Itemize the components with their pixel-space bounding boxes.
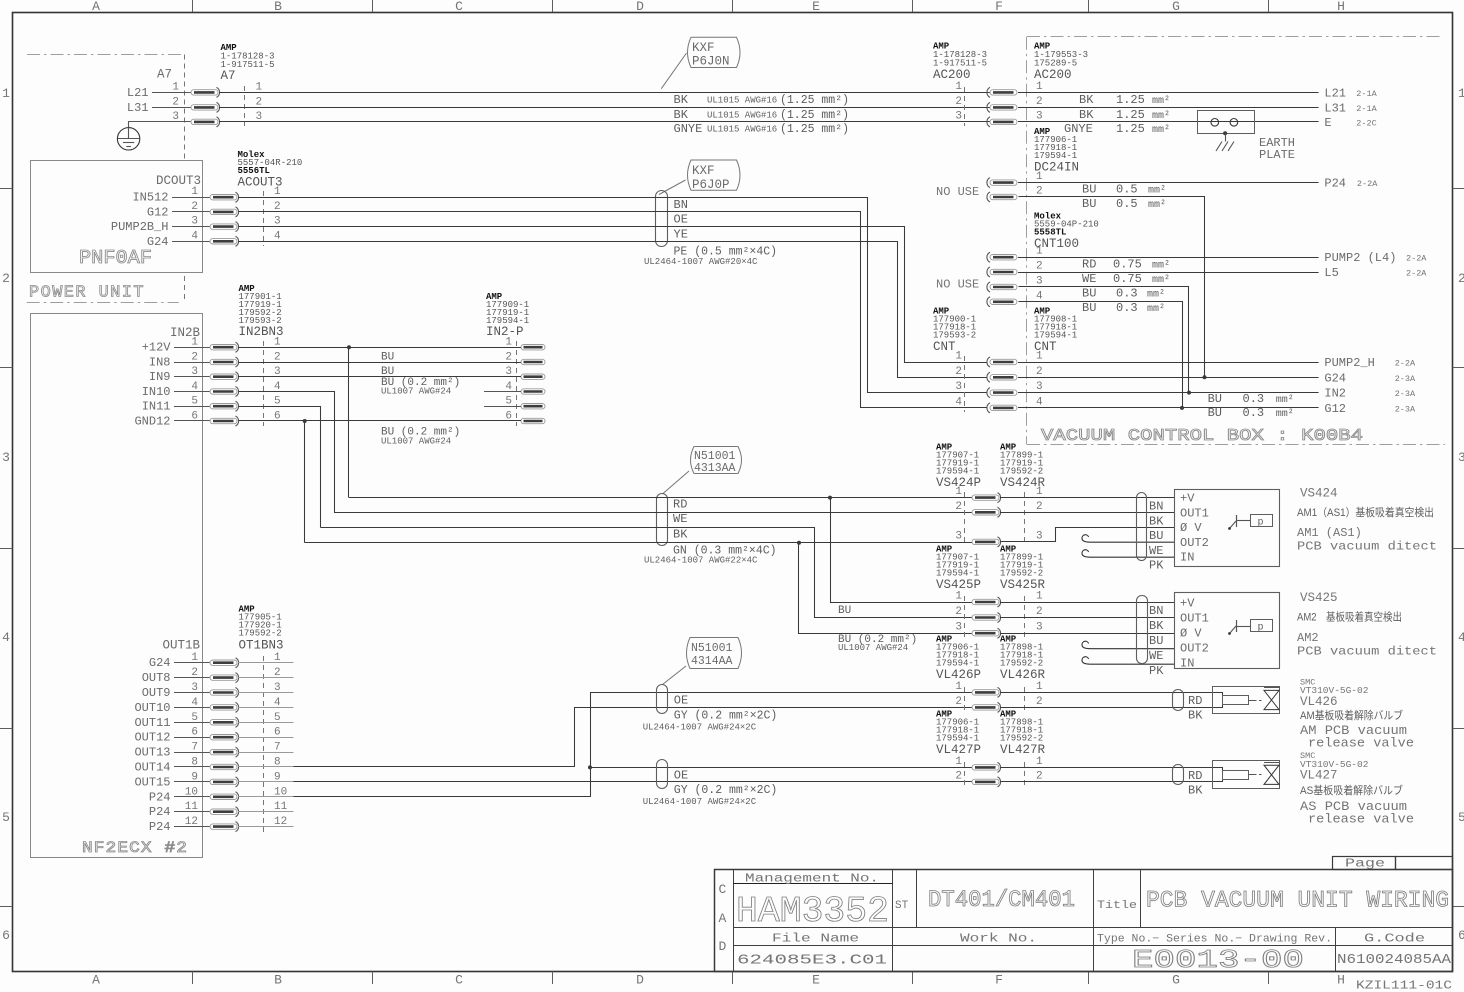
svg-text:AC200: AC200 xyxy=(933,68,971,82)
svg-text:2: 2 xyxy=(955,501,962,513)
svg-text:+V: +V xyxy=(1180,492,1195,506)
wire YE : ACOUT3-3 to CNT-1 xyxy=(239,227,987,363)
svg-text:1: 1 xyxy=(955,486,962,498)
svg-text:VS425: VS425 xyxy=(1300,591,1338,605)
cable balloon KXF P6J0N xyxy=(688,37,741,67)
svg-text:0.5: 0.5 xyxy=(1116,197,1138,211)
svg-text:5: 5 xyxy=(505,396,512,408)
svg-text:mm²: mm² xyxy=(1147,290,1165,301)
svg-text:179593-2: 179593-2 xyxy=(933,331,976,341)
svg-text:0.3: 0.3 xyxy=(1116,301,1138,315)
svg-text:3: 3 xyxy=(274,216,281,228)
cable balloon N51001 4314AA xyxy=(687,638,742,669)
pressure sensor symbol xyxy=(1236,620,1238,632)
svg-text:2: 2 xyxy=(1036,770,1043,782)
svg-text:1: 1 xyxy=(1036,171,1043,183)
svg-text:OUT15: OUT15 xyxy=(134,775,170,789)
wire GN to VS424P-3 (junction to VS425P-3) xyxy=(305,542,972,544)
svg-text:UL1015 AWG#16: UL1015 AWG#16 xyxy=(707,110,777,120)
svg-text:1: 1 xyxy=(274,186,281,198)
svg-text:2: 2 xyxy=(955,606,962,618)
svg-text:RD: RD xyxy=(1188,694,1202,708)
svg-text:PUMP2B_H: PUMP2B_H xyxy=(111,220,169,234)
svg-text:1.25: 1.25 xyxy=(1116,93,1145,107)
svg-text:5: 5 xyxy=(191,396,198,408)
wire BK (L21) A7-1 to AC200-1 xyxy=(219,92,990,94)
svg-text:D: D xyxy=(719,939,727,954)
svg-text:p: p xyxy=(1258,518,1264,529)
wire L21 stub xyxy=(152,92,191,94)
svg-text:AM2: AM2 xyxy=(1297,631,1319,645)
svg-text:179594-1: 179594-1 xyxy=(1034,331,1077,341)
svg-text:1: 1 xyxy=(191,186,198,198)
wire VS425R-3 to sensor 0V xyxy=(1000,633,1175,635)
svg-text:UL1015 AWG#16: UL1015 AWG#16 xyxy=(707,96,777,106)
svg-text:OUT2: OUT2 xyxy=(1180,536,1209,550)
svg-text:Ø V: Ø V xyxy=(1180,521,1202,535)
svg-text:release valve: release valve xyxy=(1308,813,1414,827)
svg-text:2-3A: 2-3A xyxy=(1395,374,1416,384)
svg-text:0.3: 0.3 xyxy=(1116,287,1138,301)
wire VS425R-2 to sensor OUT1 xyxy=(1000,617,1175,619)
wire OUT14 to VL426 GY xyxy=(294,708,973,767)
svg-text:IN: IN xyxy=(1180,657,1194,671)
svg-text:BN: BN xyxy=(1149,500,1163,514)
svg-text:PK: PK xyxy=(1149,664,1164,678)
svg-text:1.25: 1.25 xyxy=(1116,108,1145,122)
svg-text:3: 3 xyxy=(191,216,198,228)
svg-text:1: 1 xyxy=(1036,756,1043,768)
svg-text:6: 6 xyxy=(274,727,281,739)
svg-text:BU: BU xyxy=(1082,287,1096,301)
svg-text:BK: BK xyxy=(1149,514,1164,528)
svg-text:BU: BU xyxy=(1208,406,1222,420)
svg-text:AS基板吸着解除バルブ: AS基板吸着解除バルブ xyxy=(1300,783,1403,797)
svg-text:1: 1 xyxy=(172,81,179,93)
svg-text:6: 6 xyxy=(1458,928,1464,943)
svg-text:IN: IN xyxy=(1180,551,1194,565)
svg-text:179594-1: 179594-1 xyxy=(936,569,979,579)
A7 connector dashed line 2 xyxy=(244,86,246,126)
svg-text:BN: BN xyxy=(674,198,688,212)
svg-text:5: 5 xyxy=(2,810,10,825)
svg-text:L5: L5 xyxy=(1324,266,1338,280)
svg-text:mm²: mm² xyxy=(1152,275,1170,286)
svg-text:PNF0AF: PNF0AF xyxy=(79,247,152,269)
svg-text:IN2: IN2 xyxy=(1324,387,1346,401)
svg-text:ST: ST xyxy=(895,900,909,912)
wire WE to VS424P-2 xyxy=(334,512,972,514)
svg-text:KZIL111-01C: KZIL111-01C xyxy=(1356,979,1452,992)
svg-text:H: H xyxy=(1337,973,1345,988)
svg-text:4: 4 xyxy=(955,396,962,408)
VS424R connector dashed line xyxy=(1024,492,1026,546)
loose hook wire to IN xyxy=(1082,550,1175,557)
svg-text:BU: BU xyxy=(1082,183,1096,197)
IN2-P pin5 stub xyxy=(484,406,521,408)
svg-text:1: 1 xyxy=(955,591,962,603)
svg-text:2: 2 xyxy=(955,770,962,782)
svg-text:2: 2 xyxy=(172,96,179,108)
svg-text:RD: RD xyxy=(673,498,687,512)
svg-text:DT401/CM401: DT401/CM401 xyxy=(928,887,1075,913)
svg-text:2: 2 xyxy=(955,366,962,378)
CNT100 crimp terminals xyxy=(987,252,1017,262)
svg-text:CNT: CNT xyxy=(933,340,956,354)
svg-text:3: 3 xyxy=(1036,381,1043,393)
svg-text:2: 2 xyxy=(1036,366,1043,378)
svg-text:PK: PK xyxy=(1149,559,1164,573)
svg-text:NO USE: NO USE xyxy=(936,278,979,292)
svg-text:2-2A: 2-2A xyxy=(1357,179,1378,189)
svg-text:BU: BU xyxy=(1082,197,1096,211)
svg-text:1: 1 xyxy=(955,351,962,363)
svg-text:VACUUM CONTROL BOX : K00B4: VACUUM CONTROL BOX : K00B4 xyxy=(1041,427,1363,446)
svg-text:POWER UNIT: POWER UNIT xyxy=(29,284,145,303)
pressure sensor symbol xyxy=(1236,515,1238,527)
svg-text:Page: Page xyxy=(1345,858,1385,871)
svg-text:1: 1 xyxy=(256,81,263,93)
wire PE : ACOUT3-4 to CNT-2 xyxy=(239,242,987,378)
svg-text:G24: G24 xyxy=(149,656,171,670)
ACOUT3 crimp terminals xyxy=(210,192,239,202)
svg-text:179592-2: 179592-2 xyxy=(1000,659,1043,669)
svg-text:mm²: mm² xyxy=(1152,125,1170,136)
wire VL427 OE from junction xyxy=(590,767,972,769)
svg-text:IN512: IN512 xyxy=(132,191,168,205)
ground symbol (protective earth) xyxy=(117,128,139,150)
wire branch GN to VS425P-3 xyxy=(799,543,973,634)
svg-text:RD: RD xyxy=(1082,258,1096,272)
wire VS424R-3 jog up to sensor 0V xyxy=(1001,528,1175,542)
VL426P crimp terminals xyxy=(972,687,1001,697)
svg-text:OUT2: OUT2 xyxy=(1180,642,1209,656)
svg-text:2: 2 xyxy=(1036,261,1043,273)
svg-text:A7: A7 xyxy=(221,69,236,83)
wire OE : ACOUT3-2 to CNT-4 xyxy=(239,212,987,408)
svg-text:BU: BU xyxy=(838,605,851,617)
wire BK VL427R-2 to valve xyxy=(1001,780,1223,782)
svg-text:5: 5 xyxy=(1458,810,1464,825)
svg-text:1: 1 xyxy=(274,337,281,349)
wire GNYE AC200-3 to E (through earth plate) xyxy=(1018,121,1319,123)
svg-text:1: 1 xyxy=(1036,351,1043,363)
svg-text:0.5: 0.5 xyxy=(1116,183,1138,197)
NF2ECX #2 I/O unit box xyxy=(31,314,203,858)
svg-text:2: 2 xyxy=(1036,501,1043,513)
svg-text:H: H xyxy=(1337,0,1345,14)
svg-text:D: D xyxy=(636,0,644,14)
wire CNT-3 to IN2 (junction w/ CNT100-3) xyxy=(1018,392,1319,394)
svg-text:G12: G12 xyxy=(1324,402,1346,416)
wire BU DC24IN-2 down to G24 junction xyxy=(1019,197,1205,378)
svg-text:OE: OE xyxy=(674,213,688,227)
svg-text:3: 3 xyxy=(2,450,10,465)
svg-text:179594-1: 179594-1 xyxy=(936,659,979,669)
svg-text:OUT11: OUT11 xyxy=(134,716,170,730)
svg-text:5556TL: 5556TL xyxy=(238,166,270,176)
svg-text:2-1A: 2-1A xyxy=(1356,89,1377,99)
svg-text:2-2A: 2-2A xyxy=(1406,254,1427,264)
svg-text:WE: WE xyxy=(1149,649,1163,663)
svg-text:P24: P24 xyxy=(149,805,171,819)
svg-text:WE: WE xyxy=(673,512,687,526)
cable oval VS425 xyxy=(1137,596,1148,664)
cable bundle oval VL427 xyxy=(657,760,668,789)
svg-text:2: 2 xyxy=(1036,696,1043,708)
svg-text:OUT1: OUT1 xyxy=(1180,612,1209,626)
vacuum sensor box VS424 xyxy=(1175,490,1280,567)
svg-text:4314AA: 4314AA xyxy=(691,655,733,668)
svg-text:1: 1 xyxy=(1036,81,1043,93)
svg-text:OUT12: OUT12 xyxy=(134,731,170,745)
svg-text:IN8: IN8 xyxy=(149,356,171,370)
svg-text:2: 2 xyxy=(256,96,263,108)
svg-text:179594-1: 179594-1 xyxy=(1034,151,1077,161)
OT1BN3 crimp terminals xyxy=(210,658,239,668)
svg-text:GY (0.2 mm²×2C): GY (0.2 mm²×2C) xyxy=(674,710,778,723)
AC200 connector dashed line xyxy=(964,87,966,126)
loose hook wire to OUT2 xyxy=(1082,641,1175,648)
wire BU : IN2BN3-2 to IN2-P-2 xyxy=(238,362,521,364)
svg-text:1: 1 xyxy=(2,86,10,101)
svg-text:L31: L31 xyxy=(1324,101,1346,115)
svg-text:BK: BK xyxy=(674,108,689,122)
wire BN : ACOUT3-1 to CNT-3 xyxy=(239,198,987,393)
svg-text:4: 4 xyxy=(1036,290,1043,302)
svg-text:VL426: VL426 xyxy=(1300,695,1338,709)
svg-text:OUT1: OUT1 xyxy=(1180,506,1209,520)
svg-text:GNYE: GNYE xyxy=(1064,122,1093,136)
VL427P connector dashed line xyxy=(964,762,966,786)
svg-text:GNYE: GNYE xyxy=(674,122,703,136)
svg-text:NF2ECX #2: NF2ECX #2 xyxy=(82,839,188,857)
svg-text:AM1（AS1）基板吸着真空検出: AM1（AS1）基板吸着真空検出 xyxy=(1297,505,1434,519)
wire RD VL427R-1 to valve xyxy=(1001,768,1223,771)
svg-text:P6J0N: P6J0N xyxy=(692,55,730,69)
svg-text:OUT8: OUT8 xyxy=(142,671,171,685)
wire IN11 down to cable BK xyxy=(239,407,321,528)
svg-text:5: 5 xyxy=(274,396,281,408)
svg-text:HAM3352: HAM3352 xyxy=(736,891,889,932)
svg-text:KXF: KXF xyxy=(692,164,715,178)
wire GNYE (E) A7-3 to AC200-3 xyxy=(219,121,990,123)
svg-text:2: 2 xyxy=(1036,186,1043,198)
IN2-P pin4 stub xyxy=(484,391,521,393)
svg-text:2: 2 xyxy=(274,352,281,364)
svg-text:IN10: IN10 xyxy=(142,385,171,399)
svg-text:2: 2 xyxy=(505,352,512,364)
svg-text:P24: P24 xyxy=(1324,177,1346,191)
IN2BN3 connector dashed line xyxy=(263,341,265,426)
svg-text:L31: L31 xyxy=(127,101,149,115)
svg-text:3: 3 xyxy=(955,110,962,122)
cable oval VS424 xyxy=(1137,493,1147,561)
svg-text:UL2464-1007 AWG#24×2C: UL2464-1007 AWG#24×2C xyxy=(643,797,757,807)
CNT crimp terminals xyxy=(987,357,1017,367)
svg-text:175289-5: 175289-5 xyxy=(1034,59,1077,69)
svg-text:BU: BU xyxy=(1149,634,1163,648)
title block outline xyxy=(715,870,1453,972)
cable oval VL427 xyxy=(1173,765,1184,785)
svg-text:OUT1B: OUT1B xyxy=(162,639,200,653)
svg-text:A7: A7 xyxy=(157,68,172,82)
svg-text:BK: BK xyxy=(673,527,688,541)
svg-text:OE: OE xyxy=(674,694,688,708)
svg-text:6: 6 xyxy=(191,727,198,739)
svg-text:E: E xyxy=(812,0,820,14)
PNF0AF power supply box xyxy=(31,161,203,273)
svg-text:0.3: 0.3 xyxy=(1243,392,1265,406)
svg-text:BK: BK xyxy=(1149,619,1164,633)
wire branch RD to VS425P-1 xyxy=(831,498,973,603)
wire RD CNT100-2 to L5 xyxy=(1018,272,1319,274)
vacuum sensor box VS425 xyxy=(1175,593,1280,669)
VL427P crimp terminals xyxy=(972,762,1001,772)
OT1BN3 pin stubs xyxy=(238,662,294,664)
svg-text:2-3A: 2-3A xyxy=(1395,389,1416,399)
svg-text:AM1 (AS1): AM1 (AS1) xyxy=(1297,526,1362,540)
vacuum control box K00B4 dash-dot boundary xyxy=(1027,36,1440,38)
svg-text:4: 4 xyxy=(191,230,198,242)
wire BK AC200-1 to L21 xyxy=(1018,92,1319,94)
svg-text:7: 7 xyxy=(274,742,281,754)
svg-text:G: G xyxy=(1172,0,1180,14)
power unit boundary vertical lower stub xyxy=(184,276,186,302)
wire BK AC200-2 to L31 xyxy=(1018,107,1319,109)
svg-text:mm²: mm² xyxy=(1276,409,1294,420)
svg-text:+12V: +12V xyxy=(142,341,172,355)
svg-text:6: 6 xyxy=(2,928,10,943)
svg-text:mm²: mm² xyxy=(1148,186,1166,197)
cable oval VL426 xyxy=(1173,690,1184,711)
svg-text:C: C xyxy=(455,0,463,14)
svg-text:GND12: GND12 xyxy=(134,415,170,429)
wire CNT-4 to G12 (junction w/ CNT100-4) xyxy=(1018,407,1319,409)
svg-text:(1.25 mm²): (1.25 mm²) xyxy=(780,123,849,136)
svg-text:2: 2 xyxy=(1458,271,1464,286)
svg-text:File Name: File Name xyxy=(772,933,859,946)
svg-text:7: 7 xyxy=(191,742,198,754)
svg-text:BU: BU xyxy=(1082,301,1096,315)
svg-text:UL1007 AWG#24: UL1007 AWG#24 xyxy=(838,643,908,653)
wire IN10 down to cable WE xyxy=(239,392,335,513)
DC24IN crimp terminals xyxy=(987,178,1017,188)
svg-text:YE: YE xyxy=(674,227,688,241)
svg-text:VS424: VS424 xyxy=(1300,487,1338,501)
svg-text:0.75: 0.75 xyxy=(1113,258,1142,272)
svg-text:mm²: mm² xyxy=(1152,111,1170,122)
svg-text:L21: L21 xyxy=(127,86,149,100)
svg-text:BK: BK xyxy=(1079,108,1094,122)
svg-text:G24: G24 xyxy=(1324,371,1346,385)
wire BK VL426R-2 to valve xyxy=(1001,705,1223,708)
solenoid valve box VL426 xyxy=(1213,687,1280,714)
svg-text:P24: P24 xyxy=(149,820,171,834)
wire DC24IN-1 to P24 xyxy=(1018,182,1319,184)
balloon leader line xyxy=(661,53,686,89)
power unit boundary vertical (A7 connector dashed line) xyxy=(184,55,186,161)
wire +12V : IN2BN3-1 to IN2-P-1 (junction to RD) xyxy=(238,347,521,349)
svg-text:2: 2 xyxy=(191,352,198,364)
svg-text:3: 3 xyxy=(955,530,962,542)
svg-text:L21: L21 xyxy=(1324,86,1346,100)
svg-text:179592-2: 179592-2 xyxy=(1000,467,1043,477)
svg-text:1: 1 xyxy=(955,81,962,93)
A7 crimp terminals xyxy=(191,87,220,97)
svg-text:VL427: VL427 xyxy=(1300,769,1338,783)
svg-text:2: 2 xyxy=(1036,96,1043,108)
AC200 crimp terminals xyxy=(987,87,1017,97)
svg-text:G12: G12 xyxy=(147,205,169,219)
svg-text:OUT10: OUT10 xyxy=(134,701,170,715)
wire BU CNT100-4 down to G12 junction xyxy=(1019,302,1183,408)
VL427R connector dashed line xyxy=(1024,762,1026,786)
svg-text:B: B xyxy=(274,0,282,14)
svg-text:VL427P: VL427P xyxy=(936,743,981,757)
CNT connector dashed line xyxy=(964,356,966,412)
svg-text:2-3A: 2-3A xyxy=(1395,404,1416,414)
svg-text:179594-1: 179594-1 xyxy=(936,734,979,744)
IN2-P connector dashed line xyxy=(516,341,518,426)
valve symbol triangles xyxy=(1264,690,1279,709)
svg-text:VL426P: VL426P xyxy=(936,668,981,682)
svg-text:B: B xyxy=(274,973,282,988)
svg-text:OUT14: OUT14 xyxy=(134,761,170,775)
svg-text:2-2A: 2-2A xyxy=(1395,359,1416,369)
svg-text:KXF: KXF xyxy=(692,41,715,55)
svg-text:PCB vacuum ditect: PCB vacuum ditect xyxy=(1297,540,1437,554)
wire OUT15 to VL427 GY xyxy=(294,781,973,783)
cable balloon KXF P6J0P xyxy=(688,160,741,190)
svg-text:624085E3.C01: 624085E3.C01 xyxy=(737,953,887,969)
wire VS424R-2 to sensor OUT1 xyxy=(1000,512,1175,514)
IN2BN3 crimp terminals xyxy=(210,342,239,352)
svg-text:+V: +V xyxy=(1180,597,1195,611)
svg-text:4313AA: 4313AA xyxy=(694,462,736,475)
OT1BN3 connector dashed line xyxy=(263,656,265,832)
svg-text:mm²: mm² xyxy=(1147,304,1165,315)
svg-text:PCB VACUUM UNIT WIRING: PCB VACUUM UNIT WIRING xyxy=(1146,888,1449,914)
VS425R connector dashed line xyxy=(1024,596,1026,638)
svg-text:E: E xyxy=(812,973,820,988)
earth plate xyxy=(1198,111,1255,134)
svg-text:PUMP2 (L4): PUMP2 (L4) xyxy=(1324,251,1396,265)
svg-text:BN: BN xyxy=(1149,604,1163,618)
svg-text:OT1BN3: OT1BN3 xyxy=(239,639,284,653)
valve symbol triangles xyxy=(1264,765,1279,784)
svg-text:VL426R: VL426R xyxy=(1000,668,1046,682)
svg-text:E: E xyxy=(1324,116,1331,130)
svg-text:1-917511-5: 1-917511-5 xyxy=(933,59,987,69)
svg-text:179594-1: 179594-1 xyxy=(936,467,979,477)
svg-text:1: 1 xyxy=(955,681,962,693)
svg-text:mm²: mm² xyxy=(1152,96,1170,107)
VS425P connector dashed line xyxy=(964,596,966,638)
VL426P connector dashed line xyxy=(964,687,966,711)
wire BU : IN2BN3-3 to IN2-P-3 xyxy=(238,376,521,378)
svg-text:G.Code: G.Code xyxy=(1364,933,1425,946)
loose hook wire to IN xyxy=(1082,657,1175,664)
svg-text:179592-2: 179592-2 xyxy=(1000,734,1043,744)
cable bundle oval 4313AA xyxy=(657,494,668,546)
svg-text:2-2A: 2-2A xyxy=(1406,269,1427,279)
power unit dash-dot boundary top xyxy=(27,54,181,56)
svg-text:BK: BK xyxy=(674,93,689,107)
svg-text:2: 2 xyxy=(2,271,10,286)
svg-text:A: A xyxy=(92,0,100,14)
wire pin3 to earth xyxy=(129,122,191,128)
